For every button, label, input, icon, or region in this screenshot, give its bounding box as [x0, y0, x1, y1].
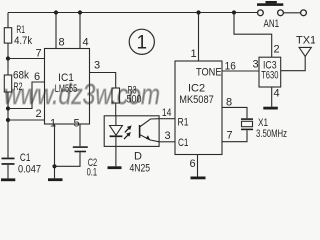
svg-text:0.047: 0.047 [18, 164, 41, 176]
node junction on rail at pin4 [78, 10, 82, 14]
LED cathode bar [110, 135, 123, 137]
svg-text:500: 500 [127, 94, 142, 106]
node junction pin7 [6, 56, 10, 60]
antenna TX1 [299, 47, 311, 56]
wire crystal to IC2 pin7 [222, 130, 247, 142]
wire left rail R2 to C1 [7, 92, 9, 158]
wire IC3 pin2 branch [234, 13, 272, 58]
svg-text:7: 7 [36, 48, 42, 60]
wire IC2 pin6 to ground [197, 155, 199, 177]
svg-text:4N25: 4N25 [130, 163, 151, 175]
wire IC2 pin1 [198, 13, 200, 62]
svg-text:1: 1 [191, 48, 197, 60]
node symbol circled 1 [129, 29, 154, 54]
wire top rail left segment [8, 12, 258, 14]
resistor R1 [4, 28, 11, 43]
crystal X1 [241, 118, 253, 130]
svg-text:0.1: 0.1 [87, 167, 98, 179]
svg-text:C1: C1 [20, 152, 31, 164]
svg-text:T630: T630 [261, 70, 278, 82]
phototransistor emitter [140, 135, 160, 142]
wire left rail R1 to R2 [7, 43, 9, 75]
svg-text:1: 1 [137, 33, 148, 54]
svg-text:6: 6 [190, 158, 196, 170]
svg-text:3: 3 [94, 60, 100, 72]
svg-text:LM555: LM555 [55, 83, 77, 95]
capacitor C1 [2, 158, 15, 179]
wire pin2 [8, 119, 45, 121]
phototransistor collector [140, 119, 160, 127]
svg-text:4.7k: 4.7k [14, 35, 32, 47]
svg-text:TX1: TX1 [296, 35, 315, 47]
node junction on rail at IC2 pin1 [196, 10, 200, 14]
watermark www.dz3w.com [4, 79, 160, 111]
LED cathode stem [115, 137, 117, 166]
svg-text:R2: R2 [14, 81, 23, 93]
svg-text:6: 6 [34, 71, 40, 83]
svg-text:2: 2 [274, 44, 280, 56]
wire IC3 pin4 to ground [271, 87, 273, 107]
svg-text:C1: C1 [178, 137, 189, 149]
resistor R3 [112, 88, 120, 103]
wire IC2 pin8 to crystal [222, 107, 247, 118]
terminal battery + [301, 10, 307, 16]
light arrow 1 [125, 128, 129, 132]
svg-text:16: 16 [225, 61, 236, 73]
wire pin4 [79, 13, 81, 49]
wire pin6 dogleg [8, 82, 45, 109]
wire pin3 to R3 [90, 73, 116, 89]
svg-text:IC2: IC2 [188, 83, 205, 95]
LED anode stem [115, 116, 117, 126]
svg-text:3.50MHz: 3.50MHz [256, 128, 287, 140]
wire left rail top [7, 13, 9, 28]
resistor R2 [4, 75, 11, 92]
node junction on rail at pin8 [54, 10, 58, 14]
svg-text:2: 2 [36, 108, 42, 120]
ground IC3 pin4 [263, 107, 278, 110]
wire pin1 to ground [54, 124, 56, 178]
optocoupler D 4N25 [104, 116, 159, 167]
op timer IC1 LM555 [45, 49, 90, 125]
tone dialer IC2 MK5087 [175, 61, 222, 155]
svg-text:14: 14 [162, 107, 172, 119]
wire pin5 [79, 124, 81, 146]
light arrow 2 [124, 135, 128, 139]
switch AN1 [257, 1, 283, 16]
node junction on rail at IC3 branch [232, 10, 236, 14]
node junction pin6 [6, 106, 10, 110]
wire R3 to opto [115, 103, 117, 116]
wire pin7 [8, 58, 45, 60]
svg-text:1: 1 [50, 118, 56, 130]
ground IC2 pin6 [191, 177, 206, 180]
svg-text:4: 4 [274, 88, 280, 100]
svg-text:3: 3 [165, 130, 171, 142]
svg-text:8: 8 [59, 37, 65, 49]
svg-text:R1: R1 [178, 117, 189, 129]
svg-text:68k: 68k [13, 70, 29, 82]
svg-text:MK5087: MK5087 [179, 94, 214, 106]
svg-text:7: 7 [227, 130, 233, 142]
transmitter IC3 T630 [259, 57, 281, 87]
ground IC1 pin1 [48, 178, 63, 181]
svg-text:TONE: TONE [196, 67, 222, 79]
ground C1 [1, 178, 15, 181]
capacitor C2 [55, 146, 88, 166]
ground opto LED [108, 166, 122, 169]
svg-text:3: 3 [253, 59, 259, 71]
wire IC3 to antenna [281, 56, 306, 70]
svg-text:AN1: AN1 [264, 18, 280, 30]
svg-text:D: D [134, 151, 142, 163]
phototransistor base bar [139, 125, 141, 138]
wire pin8 [55, 13, 57, 49]
svg-text:8: 8 [226, 97, 232, 109]
node junction C2 return [52, 164, 56, 168]
wire top rail right segment (AN1 to battery terminal) [283, 12, 300, 14]
svg-text:4: 4 [83, 37, 89, 49]
LED triangle [110, 126, 123, 136]
node junction pin2 [6, 118, 10, 122]
wire opto emitter to IC2 pin3 [159, 141, 175, 143]
wire opto collector to IC2 pin14 [159, 118, 175, 120]
wire IC2 pin16 to IC3 pin3 [222, 70, 259, 72]
svg-text:5: 5 [73, 118, 79, 130]
